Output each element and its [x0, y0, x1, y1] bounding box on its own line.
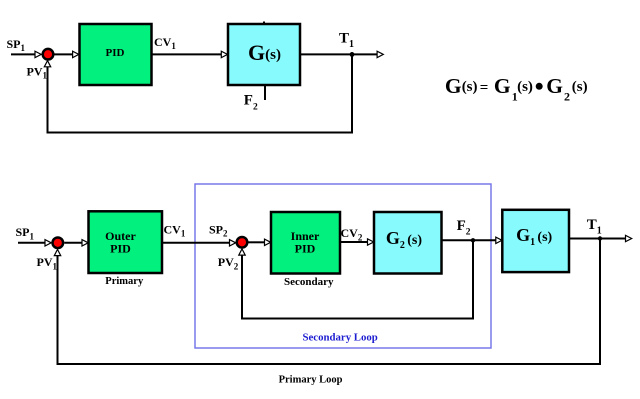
- block G1(s): [502, 210, 569, 272]
- wire SP1 input (bottom): [18, 242, 45, 244]
- wire G1 output: [569, 238, 626, 240]
- arrowhead up into S2: [54, 249, 60, 255]
- block Outer PID: [89, 211, 163, 273]
- wire secondary feedback bottom: [241, 318, 474, 320]
- svg-text:Secondary Loop: Secondary Loop: [303, 332, 378, 344]
- arrowhead into summing junction S2: [45, 240, 51, 246]
- svg-text:PID: PID: [106, 47, 125, 59]
- arrowhead into G2: [368, 239, 374, 245]
- summing junction S1: [43, 49, 54, 60]
- node T1 junction dot (bottom): [598, 236, 602, 240]
- arrowhead output T1: [377, 51, 383, 57]
- summing junction S2: [53, 238, 64, 249]
- wire secondary feedback down from F2: [472, 240, 474, 318]
- wire S3 to Inner PID: [249, 241, 265, 243]
- block Inner PID: [271, 212, 340, 274]
- arrowhead into summing junction S3: [230, 240, 236, 246]
- arrowhead up into S1: [44, 61, 50, 67]
- arrowhead up into S3: [239, 249, 245, 255]
- arrowhead into G(s): [221, 51, 227, 57]
- equation bullet dot: [536, 83, 543, 90]
- wire feedback bottom horizontal: [47, 132, 354, 134]
- block PID: [80, 24, 152, 85]
- wire Inner PID to G2: [340, 241, 368, 243]
- secondary loop boundary box: [195, 184, 491, 348]
- block G(s): [228, 24, 300, 85]
- svg-text:Primary Loop: Primary Loop: [279, 374, 343, 385]
- wire SP1 input: [11, 53, 35, 55]
- wire S1 to PID: [55, 53, 73, 55]
- wire G(s) output to T1: [300, 53, 377, 55]
- svg-text:PID: PID: [295, 242, 316, 256]
- wire feedback down from T1: [351, 54, 353, 132]
- wire feedback up to S1: [47, 67, 49, 134]
- wire S2 to Outer PID: [64, 242, 82, 244]
- wire G2 to G1 via F2: [442, 239, 497, 241]
- arrowhead into Inner PID: [265, 239, 271, 245]
- wire F2 disturbance input: [264, 85, 266, 100]
- svg-text:Primary: Primary: [105, 276, 144, 287]
- node F2 junction dot: [471, 238, 475, 242]
- svg-text:PID: PID: [110, 242, 131, 256]
- wire primary feedback down from T1: [599, 239, 601, 365]
- arrowhead output (bottom): [626, 235, 632, 241]
- summing junction S3: [237, 237, 248, 248]
- arrowhead into G1: [496, 237, 502, 243]
- arrowhead into summing junction S1: [35, 51, 41, 57]
- wire PID to G(s): [152, 53, 222, 55]
- wire primary feedback bottom: [57, 363, 602, 365]
- wire Outer PID to S3: [162, 242, 230, 244]
- arrowhead into Outer PID: [82, 240, 88, 246]
- arrowhead into PID: [73, 51, 79, 57]
- tick on top of G(s): [263, 22, 265, 25]
- wire primary feedback up to S2: [57, 255, 59, 365]
- block G2(s): [374, 212, 442, 274]
- node T1 junction dot: [350, 52, 355, 57]
- svg-text:Secondary: Secondary: [284, 276, 334, 288]
- wire secondary feedback up to S3: [241, 255, 243, 320]
